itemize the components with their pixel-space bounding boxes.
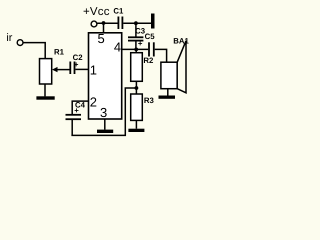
svg-text:1: 1	[90, 63, 97, 78]
ground top right (bar)	[151, 14, 155, 29]
resistor R2	[131, 53, 154, 82]
wire pin 4 to output node	[122, 48, 149, 50]
wire R1 bottom	[44, 84, 46, 96]
wire pin 3 stem	[104, 119, 106, 130]
capacitor C3	[128, 23, 146, 49]
wire Vcc rail	[97, 22, 118, 24]
svg-text:5: 5	[98, 31, 105, 46]
node Vcc/pin5 junction	[102, 21, 106, 25]
input terminal ir	[6, 32, 23, 45]
svg-text:C1: C1	[113, 7, 124, 16]
wire R3 bottom stem	[135, 121, 137, 129]
capacitor C4	[66, 100, 86, 135]
wire feedback: R2/R3 node to bottom run	[71, 88, 136, 135]
svg-text:+: +	[74, 106, 79, 115]
wire R2 top stem	[135, 49, 137, 52]
ground under speaker	[159, 96, 176, 99]
wire input to R1 top	[23, 43, 45, 59]
resistor R3	[131, 94, 155, 120]
node C3 tap on rail	[134, 21, 138, 25]
wire R2 bottom stem	[135, 81, 137, 94]
wire C1 to ground bar	[123, 22, 151, 24]
node pin4/C3/R2/C5 junction	[134, 48, 138, 52]
svg-text:R1: R1	[54, 48, 65, 57]
capacitor C2	[70, 53, 83, 74]
capacitor C1	[113, 7, 124, 29]
speaker BA1	[161, 36, 190, 93]
wire pin 5 stem	[103, 23, 105, 33]
R1 wiper arrow	[52, 67, 70, 72]
svg-text:+: +	[138, 39, 143, 48]
svg-text:C5: C5	[145, 32, 156, 41]
svg-text:3: 3	[100, 105, 107, 120]
ground under R3	[128, 129, 144, 132]
wire C2 to pin 1	[75, 68, 88, 70]
ground under pin 3	[97, 130, 113, 133]
capacitor C5	[138, 32, 155, 57]
wire C5 to speaker	[155, 49, 167, 62]
svg-text:R2: R2	[143, 56, 154, 65]
svg-text:2: 2	[90, 95, 97, 110]
svg-text:+Vcc: +Vcc	[83, 6, 110, 18]
svg-text:R3: R3	[144, 96, 155, 105]
resistor R1 (potentiometer)	[40, 48, 65, 84]
power terminal +Vcc	[83, 6, 110, 27]
svg-text:BA1: BA1	[173, 36, 189, 45]
svg-text:4: 4	[114, 39, 121, 54]
ground under R1	[36, 96, 54, 99]
wire pin 2 to C4	[72, 101, 88, 115]
node R2/R3 junction	[135, 86, 139, 90]
svg-text:ir: ir	[6, 32, 12, 44]
wire speaker bottom	[167, 89, 169, 96]
IC U1 amplifier box	[89, 33, 122, 119]
